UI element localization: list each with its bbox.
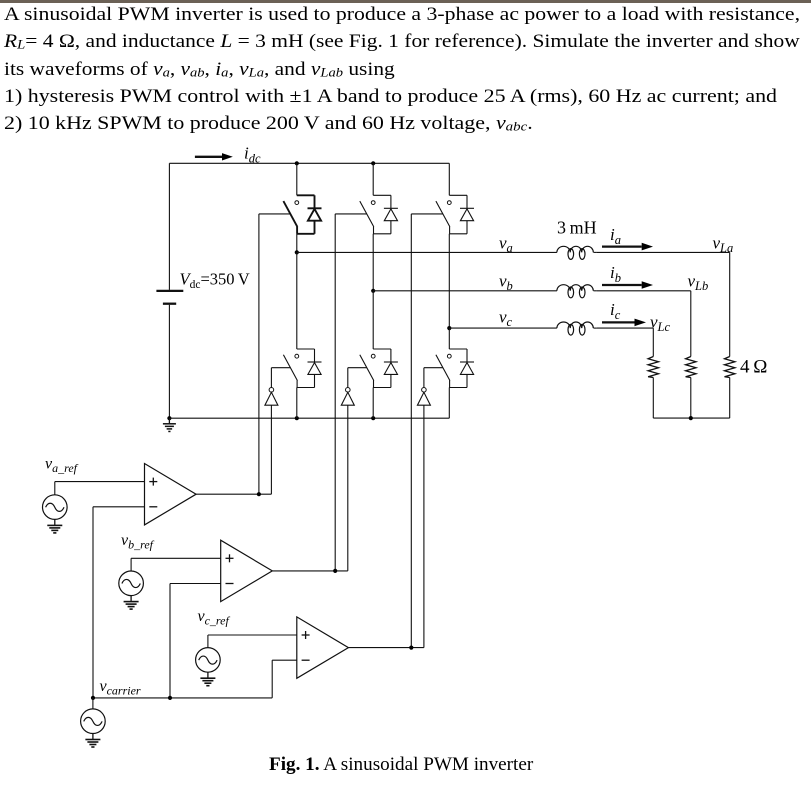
wire source v_c_ref to + input <box>207 635 209 648</box>
op-amp comparator Ua <box>145 464 197 525</box>
resistor Rb 4 ohm <box>686 357 696 378</box>
wire leg b top <box>372 163 374 195</box>
node comparator a output <box>257 492 261 496</box>
wire inverter a output to bottom switch gate <box>270 368 272 388</box>
node vb <box>371 289 375 293</box>
wire source v_a_ref to + input <box>54 482 56 495</box>
wire top dc bus <box>169 162 449 164</box>
inverter buffer Ub (NOT gate) <box>346 388 351 393</box>
wire switch b1 to node vb <box>372 234 374 291</box>
switch Qb2 (bottom, phase b) <box>373 348 391 350</box>
svg-text:4 Ω: 4 Ω <box>740 357 767 378</box>
source v_c_ref <box>196 648 221 673</box>
wire leg c top <box>448 163 450 195</box>
ground source a <box>54 519 56 525</box>
wire dc positive rail <box>168 163 170 290</box>
svg-text:vc: vc <box>499 307 513 329</box>
inductor La 3 mH <box>557 246 593 252</box>
wire dc negative rail <box>168 305 170 419</box>
switch Qc1 (top, phase c) <box>449 194 467 196</box>
wire node vb to inductor <box>373 290 557 292</box>
wire switch c2 to bottom bus <box>448 388 450 419</box>
inductor Lb <box>557 285 593 291</box>
op-amp comparator Uc <box>297 617 349 678</box>
wire switch b2 to bottom bus <box>372 388 374 419</box>
wire Rb to neutral <box>690 378 692 419</box>
wire node va to inductor <box>297 251 557 253</box>
wire inverter c input <box>423 405 425 647</box>
svg-text:vb: vb <box>499 272 513 294</box>
wire leg a mid <box>296 252 298 349</box>
node top bus phase a <box>295 161 299 165</box>
wire neutral bus <box>653 417 729 419</box>
svg-text:vcarrier: vcarrier <box>100 678 141 698</box>
wire inverter c output to bottom switch gate <box>423 368 425 388</box>
svg-text:3 mH: 3 mH <box>557 218 597 238</box>
svg-text:vb_ref: vb_ref <box>121 532 155 552</box>
wire carrier to - input c <box>272 659 297 661</box>
node bottom bus phase b <box>371 416 375 420</box>
switch Qc2 (bottom, phase c) <box>449 348 467 350</box>
svg-text:vc_ref: vc_ref <box>198 608 231 628</box>
wire node vc to inductor <box>449 327 557 329</box>
svg-text:ib: ib <box>610 263 621 285</box>
switch Qa1 (top, phase a) <box>297 194 315 196</box>
wire switch a2 to bottom bus <box>296 388 298 419</box>
arrow ib <box>602 284 642 286</box>
wire carrier bus <box>93 697 272 699</box>
wire inductor La to load <box>597 251 730 253</box>
wire gate top switch b <box>335 213 367 215</box>
node carrier b <box>168 696 172 700</box>
inverter buffer Uc (NOT gate) <box>422 388 427 393</box>
node bottom bus phase a <box>295 416 299 420</box>
wire comparator b output <box>272 570 348 572</box>
battery Vdc plates <box>156 290 183 292</box>
svg-text:vLb: vLb <box>688 272 709 294</box>
wire inductor Lb to load <box>597 290 691 292</box>
arrow ic <box>602 321 635 323</box>
wire inverter b output to bottom switch gate <box>347 368 349 388</box>
wire bottom dc bus <box>169 417 449 419</box>
ground carrier <box>92 734 94 740</box>
source v_a_ref <box>43 495 68 520</box>
wire gate top switch a <box>259 213 291 215</box>
node carrier source <box>91 696 95 700</box>
node dc negative <box>167 416 171 420</box>
op-amp comparator Ub <box>221 540 273 601</box>
node comparator b output <box>333 569 337 573</box>
svg-text:va: va <box>499 233 513 255</box>
wire comparator c output <box>348 647 424 649</box>
source v_carrier <box>92 698 94 709</box>
inverter buffer Ua (NOT gate) <box>269 388 274 393</box>
wire leg a top <box>296 163 298 195</box>
svg-text:ia: ia <box>610 225 621 247</box>
wire carrier to - input a <box>93 506 145 508</box>
node comparator c output <box>409 646 413 650</box>
svg-text:Vdc=350 V: Vdc=350 V <box>180 270 250 292</box>
svg-text:vLa: vLa <box>713 233 734 255</box>
wire source v_b_ref to + input <box>130 558 132 571</box>
wire inverter a input <box>270 405 272 494</box>
node top bus phase b <box>371 161 375 165</box>
arrow idc <box>195 156 222 158</box>
wire leg c mid <box>448 328 450 349</box>
wire Ra to neutral <box>729 378 731 419</box>
ground dc bus <box>168 418 170 423</box>
wire switch c1 to node vc <box>448 234 450 328</box>
node vc <box>447 326 451 330</box>
node va <box>295 250 299 254</box>
ground source c <box>207 672 209 678</box>
inductor Lc <box>557 322 593 328</box>
wire leg b mid <box>372 291 374 349</box>
wire inverter b input <box>347 405 349 571</box>
wire switch a1 to node va <box>296 234 298 253</box>
switch Qb1 (top, phase b) <box>373 194 391 196</box>
resistor Ra 4 ohm <box>725 357 735 378</box>
svg-text:va_ref: va_ref <box>45 456 79 476</box>
wire comparator a output <box>196 493 271 495</box>
resistor Rc 4 ohm <box>648 357 658 378</box>
wire carrier to - input b <box>170 583 221 585</box>
wire inductor Lc to load <box>597 327 653 329</box>
svg-text:idc: idc <box>244 144 261 166</box>
switch Qa2 (bottom, phase a) <box>297 348 315 350</box>
svg-text:ic: ic <box>610 300 621 322</box>
source v_b_ref <box>119 571 144 596</box>
wire Rc to neutral <box>652 378 654 419</box>
arrow ia <box>602 245 642 247</box>
node neutral <box>689 416 693 420</box>
ground source b <box>130 596 132 602</box>
wire gate top switch c <box>411 213 443 215</box>
svg-text:vLc: vLc <box>650 313 670 335</box>
